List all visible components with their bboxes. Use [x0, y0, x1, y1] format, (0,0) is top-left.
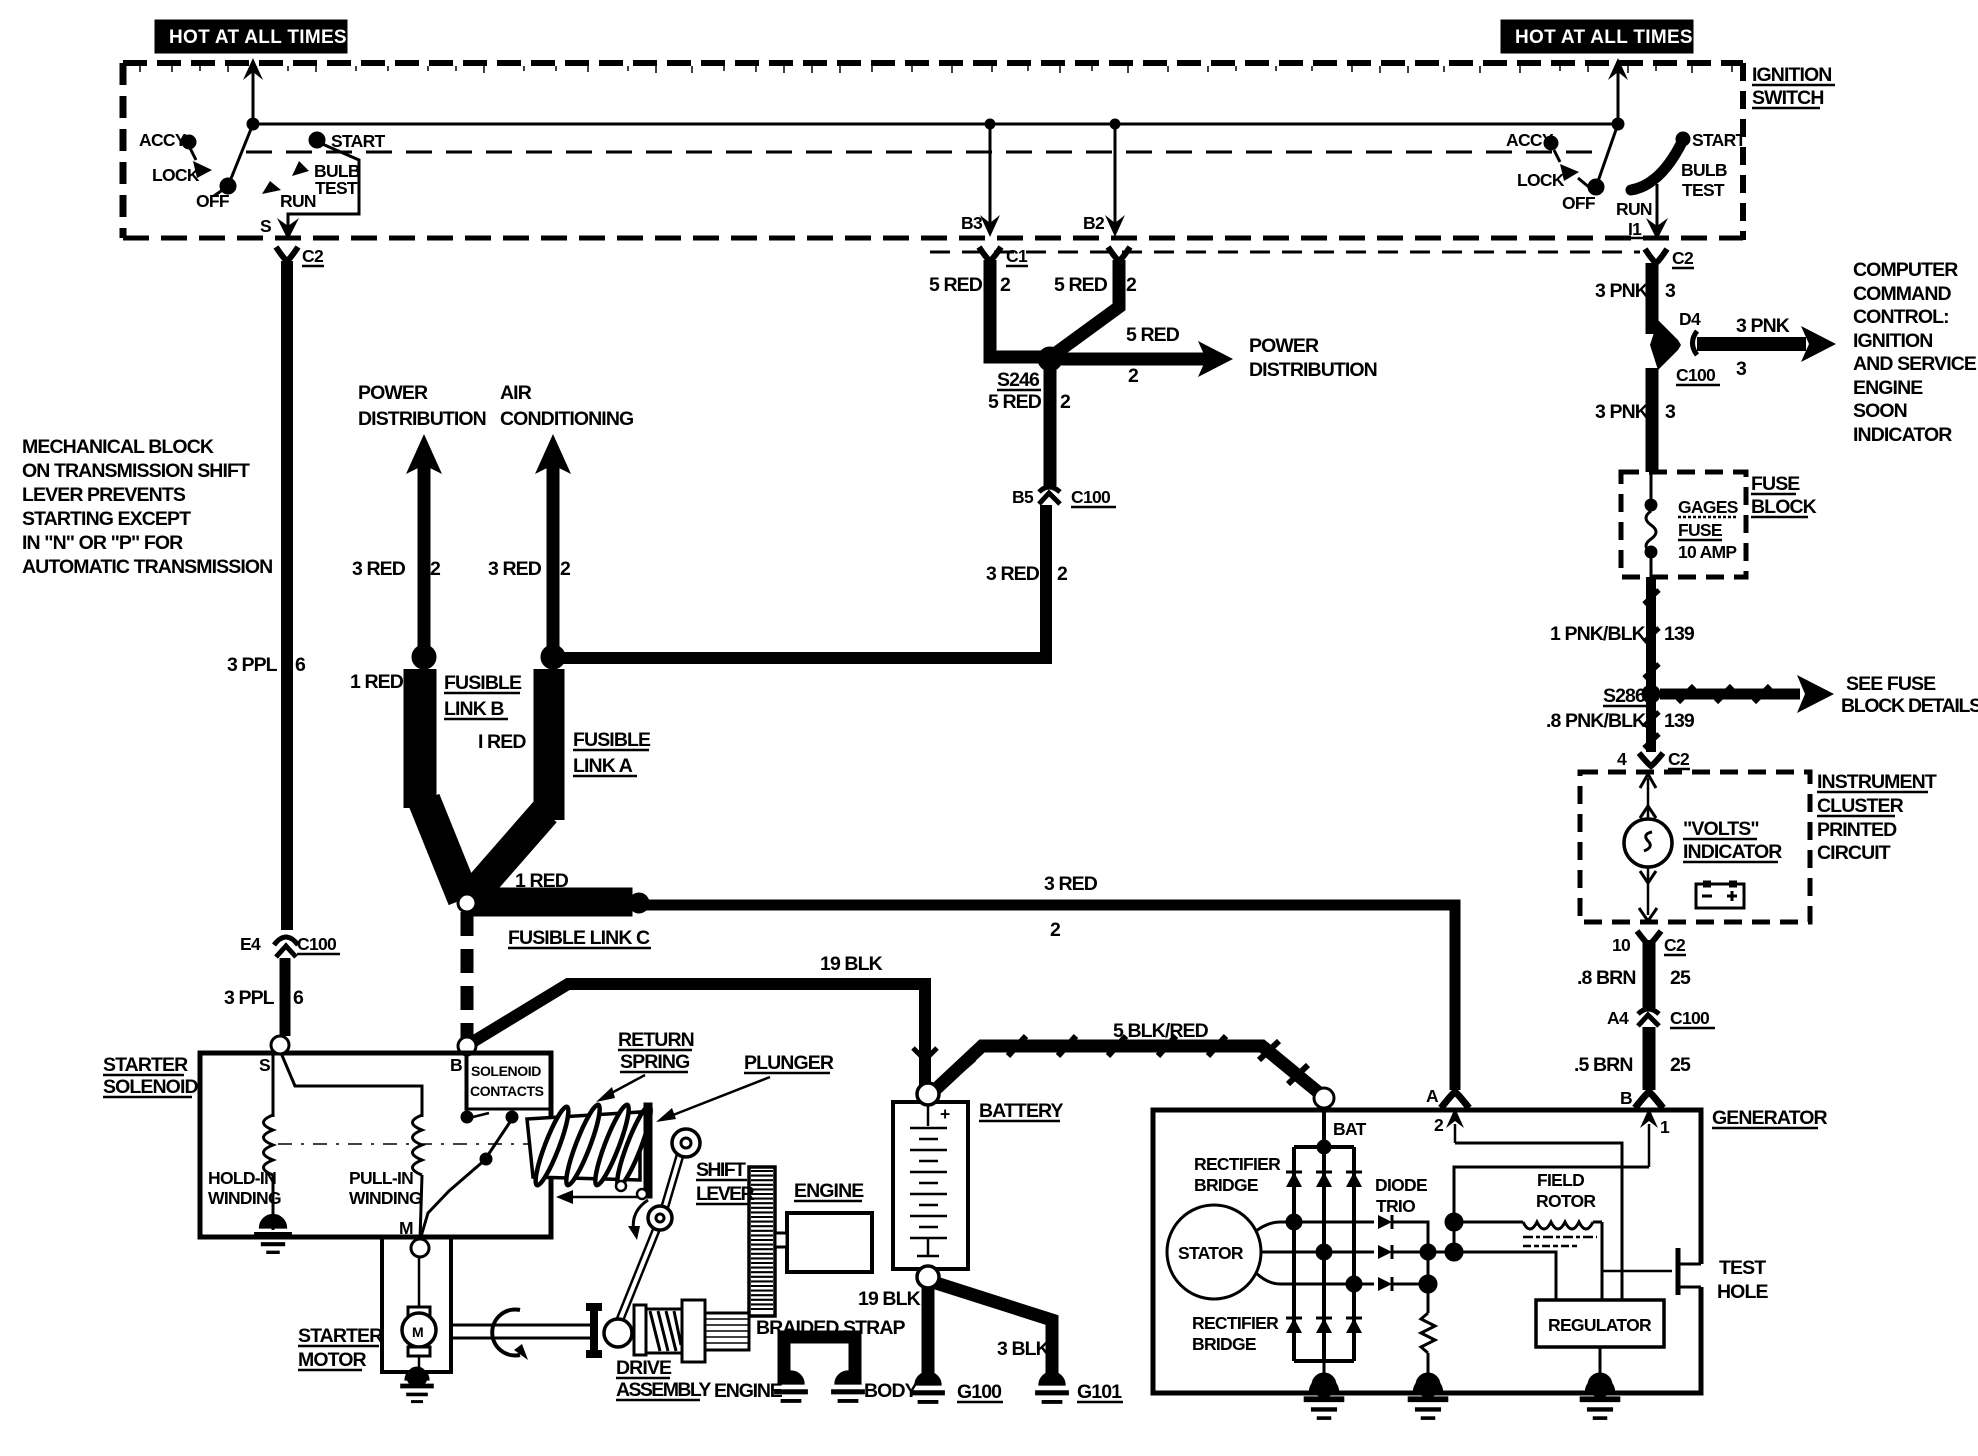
svg-text:SWITCH: SWITCH — [1752, 87, 1824, 109]
volts indicator lead in — [1640, 774, 1656, 820]
solenoid S terminal — [259, 1036, 289, 1075]
instrument cluster printed circuit dashed box — [1580, 772, 1810, 922]
label SEE FUSE BLOCK DETAILS — [1841, 673, 1978, 717]
svg-text:3 PNK: 3 PNK — [1736, 315, 1790, 337]
label PLUNGER — [744, 1052, 834, 1074]
right ignition switch feed arrow to HOT — [1608, 58, 1628, 130]
svg-text:TEST: TEST — [315, 178, 358, 198]
svg-text:B: B — [450, 1055, 462, 1075]
svg-text:5 RED: 5 RED — [988, 391, 1042, 413]
wire: bus inside ignition switch — [253, 123, 1618, 126]
left switch contact OFF — [196, 178, 236, 211]
svg-text:FIELD: FIELD — [1537, 1170, 1584, 1190]
label ENGINE (box) — [794, 1180, 864, 1202]
label POWER DISTRIBUTION (right) — [1249, 335, 1377, 381]
svg-text:5 RED: 5 RED — [1054, 274, 1108, 296]
battery - terminal — [917, 1266, 939, 1288]
svg-text:CONDITIONING: CONDITIONING — [500, 408, 633, 430]
svg-text:FUSIBLE: FUSIBLE — [573, 729, 651, 751]
wire: 5 RED S246 down to B5 — [1044, 359, 1057, 486]
svg-text:+: + — [940, 1104, 950, 1124]
rectifier bridge top bus — [1294, 1145, 1354, 1149]
svg-text:19 BLK: 19 BLK — [820, 953, 883, 975]
svg-text:AUTOMATIC TRANSMISSION: AUTOMATIC TRANSMISSION — [22, 556, 272, 578]
svg-text:C100: C100 — [1071, 487, 1111, 507]
svg-text:DIODE: DIODE — [1375, 1175, 1427, 1195]
wire: B to fixed contact — [466, 1055, 469, 1116]
volts indicator lamp — [1624, 819, 1672, 867]
stator phase leads — [1256, 1222, 1354, 1284]
ignition switch box top edge ticks — [140, 66, 1732, 73]
svg-text:M: M — [399, 1218, 413, 1238]
svg-text:G101: G101 — [1077, 1381, 1122, 1403]
svg-text:STARTER: STARTER — [298, 1325, 383, 1347]
wire: 5 RED from B2 connector to S246 — [1056, 260, 1119, 353]
connector C2 (right, below ignition switch) — [1645, 248, 1694, 268]
ground (rectifier bridge) — [1304, 1373, 1345, 1418]
rectifier bridge bottom bus — [1294, 1359, 1354, 1363]
splice S286 — [1603, 685, 1660, 707]
wire: 3 PPL (E4 to solenoid S) — [280, 958, 291, 1036]
generator BAT terminal — [1314, 1088, 1367, 1154]
svg-text:HOT AT ALL TIMES: HOT AT ALL TIMES — [1515, 27, 1693, 48]
svg-text:IN "N" OR "P" FOR: IN "N" OR "P" FOR — [22, 532, 183, 554]
label RECTIFIER BRIDGE (bottom) — [1192, 1313, 1279, 1354]
ground (regulator) — [1580, 1373, 1621, 1418]
wire: .5 BRN A4 to generator B — [1643, 1027, 1656, 1090]
shift lever rotation arrow — [633, 1200, 648, 1232]
ground G100 — [911, 1372, 1003, 1403]
ignition switch box (dashed) — [123, 63, 1743, 252]
svg-text:BATTERY: BATTERY — [979, 1100, 1064, 1122]
wire: 5 BLK/RED battery to generator BAT (hatched) — [936, 1036, 1318, 1092]
svg-text:DRIVE: DRIVE — [616, 1357, 672, 1379]
connector A4 C100 — [1607, 1008, 1715, 1028]
drive assembly splined shaft — [705, 1313, 749, 1350]
svg-text:.8 PNK/BLK: .8 PNK/BLK — [1546, 710, 1646, 732]
svg-text:DISTRIBUTION: DISTRIBUTION — [358, 408, 486, 430]
svg-text:1 PNK/BLK: 1 PNK/BLK — [1550, 623, 1646, 645]
wire: 3 PPL left column (C2 to E4) — [281, 261, 293, 930]
svg-text:AIR: AIR — [500, 382, 532, 404]
left switch contact BULB TEST — [292, 161, 360, 198]
connector at generator B — [1620, 1088, 1663, 1108]
left switch contact LOCK — [152, 161, 212, 185]
svg-text:AND SERVICE: AND SERVICE — [1853, 353, 1977, 375]
svg-text:C2: C2 — [1664, 935, 1686, 955]
svg-text:6: 6 — [293, 987, 304, 1009]
starter motor armature — [402, 1257, 436, 1374]
wire: B3 drop inside switch box — [961, 119, 1000, 237]
left switch wiper OFF->bus — [228, 124, 253, 186]
pull-in winding coil — [413, 1115, 423, 1175]
junction dot after link C — [629, 893, 649, 913]
label 3 PNK 3 (lower) — [1595, 401, 1676, 423]
braided strap — [784, 1337, 855, 1381]
engine block box — [787, 1213, 872, 1272]
svg-text:LEVER PREVENTS: LEVER PREVENTS — [22, 484, 186, 506]
svg-text:HOT AT ALL TIMES: HOT AT ALL TIMES — [169, 27, 347, 48]
svg-text:LINK B: LINK B — [444, 698, 504, 720]
svg-text:BLOCK DETAILS: BLOCK DETAILS — [1841, 695, 1978, 717]
svg-text:CIRCUIT: CIRCUIT — [1817, 842, 1891, 864]
svg-text:GENERATOR: GENERATOR — [1712, 1107, 1828, 1129]
svg-text:C100: C100 — [1676, 365, 1716, 385]
connector 10 C2 (cluster out) — [1612, 931, 1686, 955]
svg-text:3 PPL: 3 PPL — [227, 654, 278, 676]
svg-text:SOON: SOON — [1853, 400, 1907, 422]
phase junction dots on bridge — [1286, 1214, 1362, 1292]
shift lever rotation arrowhead — [628, 1226, 640, 1240]
svg-text:STATOR: STATOR — [1178, 1243, 1244, 1263]
right switch wiper OFF->bus — [1596, 124, 1618, 187]
svg-text:MECHANICAL BLOCK: MECHANICAL BLOCK — [22, 436, 214, 458]
svg-text:WINDING: WINDING — [349, 1188, 422, 1208]
wire: phase sense to regulator — [1454, 1252, 1556, 1300]
wire: RUN to I1 terminal — [1656, 184, 1659, 228]
rectifier bridge bottom diodes — [1286, 1318, 1362, 1333]
label GAGES FUSE 10 AMP — [1678, 497, 1738, 562]
svg-text:LINK A: LINK A — [573, 755, 633, 777]
ground (resistor) — [1408, 1373, 1449, 1418]
svg-text:3 PNK: 3 PNK — [1595, 280, 1649, 302]
diode trio — [1378, 1215, 1392, 1291]
shift lever pivots — [648, 1129, 700, 1230]
svg-text:3 PNK: 3 PNK — [1595, 401, 1649, 423]
label POWER DISTRIBUTION (arrow, left) — [358, 382, 486, 430]
svg-text:POWER: POWER — [358, 382, 428, 404]
svg-text:HOLD-IN: HOLD-IN — [208, 1168, 276, 1188]
field rotor core dashes — [1523, 1237, 1597, 1246]
svg-text:2: 2 — [1057, 563, 1068, 585]
label RETURN SPRING — [618, 1029, 694, 1073]
svg-text:C2: C2 — [1668, 749, 1690, 769]
ground (hold-in winding) — [254, 1215, 292, 1253]
svg-text:SHIFT: SHIFT — [696, 1159, 746, 1181]
wire: 1 PNK/BLK fuse block to S286 (hatched) — [1644, 577, 1659, 688]
svg-text:10: 10 — [1612, 935, 1631, 955]
starter motor shaft — [451, 1325, 594, 1338]
label 5 RED 2 (right) — [1054, 274, 1137, 296]
junction dot above fusible link B — [412, 645, 436, 669]
svg-text:S286: S286 — [1603, 685, 1646, 707]
svg-text:RUN: RUN — [1616, 199, 1652, 219]
wire: 3 PNK D4 to fuse block — [1646, 368, 1659, 472]
svg-text:3 RED: 3 RED — [488, 558, 542, 580]
right switch contact OFF — [1562, 179, 1604, 213]
label DRIVE ASSEMBLY — [616, 1357, 711, 1401]
svg-text:FUSIBLE: FUSIBLE — [444, 672, 522, 694]
left switch contact RUN — [262, 181, 316, 211]
svg-text:IGNITION: IGNITION — [1752, 64, 1831, 86]
label 3 RED 2 (to generator) — [1044, 873, 1098, 941]
label SHIFT LEVER — [696, 1159, 755, 1205]
left ignition switch feed arrow to HOT — [243, 58, 263, 130]
svg-text:G100: G100 — [957, 1381, 1002, 1403]
connector D4 C100 with arrow to computer command control — [1650, 309, 1836, 385]
wire: 3 RED B5 down and left to fusible link A junction — [553, 505, 1046, 658]
svg-text:E4: E4 — [240, 934, 261, 954]
wire: .8 PNK/BLK S286 to C2 (hatched) — [1644, 700, 1659, 752]
solenoid contacts box — [466, 1053, 551, 1109]
shift lever ball end — [604, 1319, 632, 1347]
rectifier bridge right column — [1352, 1147, 1356, 1361]
svg-text:1 RED: 1 RED — [350, 671, 404, 693]
wire arrow: AIR CONDITIONING up — [535, 434, 571, 655]
svg-text:6: 6 — [295, 654, 306, 676]
svg-text:2: 2 — [1050, 919, 1061, 941]
svg-text:COMPUTER: COMPUTER — [1853, 259, 1958, 281]
label 3 RED 2 (PD arrow) — [352, 558, 441, 580]
wire: S to pull-in winding — [281, 1053, 422, 1117]
svg-text:FUSE: FUSE — [1678, 520, 1722, 540]
svg-text:C2: C2 — [1672, 248, 1694, 268]
label PULL-IN WINDING — [349, 1168, 422, 1208]
drive assembly flange — [586, 1307, 602, 1354]
plunger body — [527, 1112, 640, 1180]
wire: field rotor to regulator — [1601, 1222, 1604, 1300]
svg-text:ENGINE: ENGINE — [714, 1380, 783, 1402]
label 5 RED 2 (left) — [929, 274, 1011, 296]
svg-text:5 RED: 5 RED — [929, 274, 983, 296]
svg-text:A: A — [1426, 1086, 1439, 1106]
right switch contact START — [1676, 130, 1747, 150]
svg-text:ACCY: ACCY — [139, 130, 187, 150]
gages fuse element — [1645, 472, 1657, 577]
solenoid moving contact arm — [420, 1119, 512, 1240]
svg-text:I1: I1 — [1628, 219, 1642, 239]
svg-text:C1: C1 — [1006, 246, 1028, 266]
label 3 RED 2 (AC arrow) — [488, 558, 571, 580]
svg-text:RECTIFIER: RECTIFIER — [1194, 1154, 1281, 1174]
svg-text:SEE FUSE: SEE FUSE — [1846, 673, 1936, 695]
label 3 PNK 3 (upper) — [1595, 280, 1676, 302]
svg-text:1: 1 — [1660, 1117, 1670, 1137]
ground BODY (strap) — [831, 1371, 918, 1402]
svg-text:SOLENOID: SOLENOID — [103, 1076, 198, 1098]
svg-text:LEVER: LEVER — [696, 1183, 755, 1205]
rectifier bridge left column — [1292, 1147, 1296, 1361]
svg-text:BRIDGE: BRIDGE — [1192, 1334, 1256, 1354]
svg-text:RECTIFIER: RECTIFIER — [1192, 1313, 1279, 1333]
label HOT AT ALL TIMES (left) — [155, 20, 347, 53]
svg-text:IGNITION: IGNITION — [1853, 330, 1932, 352]
starter solenoid box — [200, 1053, 551, 1237]
svg-text:S: S — [259, 1055, 270, 1075]
svg-text:3 RED: 3 RED — [1044, 873, 1098, 895]
svg-text:.8 BRN: .8 BRN — [1577, 967, 1636, 989]
right switch contact BULB TEST — [1681, 160, 1727, 200]
label FUSIBLE LINK C — [508, 927, 651, 949]
svg-text:GAGES: GAGES — [1678, 497, 1738, 517]
svg-text:5 RED: 5 RED — [1126, 324, 1180, 346]
svg-text:BULB: BULB — [1681, 160, 1727, 180]
left switch contact ACCY — [139, 130, 196, 160]
right switch contact RUN — [1616, 199, 1652, 219]
wire: 3 BLK battery - to G101 — [936, 1283, 1052, 1385]
label 3 PPL 6 (lower) — [224, 987, 304, 1009]
svg-text:139: 139 — [1664, 710, 1695, 732]
S terminal arrow at box edge — [260, 216, 299, 240]
svg-text:3 PPL: 3 PPL — [224, 987, 275, 1009]
fusible link C bar — [466, 888, 632, 916]
svg-text:FUSIBLE LINK C: FUSIBLE LINK C — [508, 927, 650, 949]
svg-text:2: 2 — [1128, 365, 1139, 387]
ground G101 — [1035, 1372, 1123, 1403]
label 3 PPL 6 (upper) — [227, 654, 306, 676]
svg-text:LOCK: LOCK — [1517, 170, 1565, 190]
svg-text:PULL-IN: PULL-IN — [349, 1168, 413, 1188]
svg-text:CONTROL:: CONTROL: — [1853, 306, 1949, 328]
svg-text:3: 3 — [1665, 280, 1676, 302]
regulator box — [1536, 1300, 1664, 1347]
svg-text:B3: B3 — [961, 213, 983, 233]
battery — [893, 1102, 968, 1269]
drive assembly collar — [634, 1305, 646, 1355]
svg-text:139: 139 — [1664, 623, 1695, 645]
solenoid B terminal (open circle) — [458, 1037, 476, 1055]
label .8 BRN 25 — [1577, 967, 1691, 989]
connector below B2 — [1108, 247, 1130, 261]
svg-text:HOLE: HOLE — [1717, 1281, 1768, 1303]
generator box — [1153, 1110, 1701, 1393]
battery cell plates — [910, 1128, 947, 1256]
spring feet — [616, 1181, 647, 1199]
label FUSIBLE LINK B — [444, 672, 522, 720]
label TEST HOLE — [1717, 1257, 1768, 1303]
fuse block dashed box — [1621, 472, 1746, 577]
test hole tap — [1602, 1248, 1701, 1295]
svg-text:SPRING: SPRING — [620, 1051, 689, 1073]
wire arrow: 5 RED to POWER DISTRIBUTION — [1038, 324, 1233, 387]
drive assembly clutch (hatched) — [646, 1309, 682, 1353]
svg-text:ROTOR: ROTOR — [1536, 1191, 1596, 1211]
wire: 19 BLK battery - to G100 — [922, 1288, 935, 1385]
svg-text:LOCK: LOCK — [152, 165, 200, 185]
ground ENGINE (strap) — [714, 1371, 808, 1402]
junction dot above fusible link A — [541, 645, 565, 669]
label AIR CONDITIONING — [500, 382, 633, 430]
svg-text:I RED: I RED — [478, 731, 526, 753]
rectifier bridge top diodes — [1286, 1172, 1362, 1187]
svg-text:B5: B5 — [1012, 487, 1034, 507]
svg-text:B: B — [1620, 1088, 1632, 1108]
svg-text:TRIO: TRIO — [1376, 1196, 1415, 1216]
wire: B(1) to field junction — [1454, 1167, 1649, 1222]
svg-text:C2: C2 — [302, 246, 324, 266]
engine flywheel ring gear — [749, 1167, 787, 1316]
label 5 RED 2 (below S246) — [988, 391, 1071, 413]
connector 4 C2 (instrument cluster in) — [1617, 749, 1690, 769]
hold-in winding coil — [264, 1115, 274, 1175]
svg-text:CLUSTER: CLUSTER — [1817, 795, 1904, 817]
svg-text:3 RED: 3 RED — [986, 563, 1040, 585]
wire: B2 drop inside switch box — [1083, 119, 1125, 237]
svg-text:TEST: TEST — [1682, 180, 1725, 200]
svg-text:ENGINE: ENGINE — [794, 1180, 864, 1202]
rectifier bridge mid column — [1322, 1147, 1326, 1361]
svg-text:2: 2 — [1434, 1115, 1444, 1135]
svg-text:25: 25 — [1670, 1054, 1691, 1076]
svg-text:2: 2 — [1000, 274, 1011, 296]
label 1 PNK/BLK 139 (upper) — [1550, 623, 1695, 645]
generator terminal 2 arrow (A) — [1434, 1108, 1464, 1143]
svg-text:SOLENOID: SOLENOID — [471, 1063, 541, 1079]
resistor in generator — [1421, 1284, 1435, 1385]
label GENERATOR — [1712, 1107, 1828, 1129]
wire: 19 BLK solenoid B to battery + — [471, 984, 925, 1086]
note text mechanical block — [22, 436, 272, 578]
solenoid M terminal — [399, 1218, 429, 1257]
svg-text:ASSEMBLY: ASSEMBLY — [616, 1379, 711, 1401]
starter motor box — [382, 1237, 451, 1372]
svg-text:2: 2 — [560, 558, 571, 580]
svg-text:STARTER: STARTER — [103, 1054, 188, 1076]
svg-text:FUSE: FUSE — [1751, 473, 1800, 495]
battery icon in cluster — [1696, 884, 1744, 908]
svg-text:ENGINE: ENGINE — [1853, 377, 1923, 399]
generator terminal 1 arrow (B) — [1640, 1108, 1670, 1167]
svg-text:M: M — [412, 1324, 424, 1340]
fusible link B bar — [420, 669, 464, 899]
label "VOLTS" INDICATOR — [1683, 818, 1782, 863]
wire: S to hold-in winding — [272, 1053, 275, 1117]
svg-text:PRINTED: PRINTED — [1817, 819, 1897, 841]
wire: pull-in winding to M — [420, 1175, 422, 1240]
svg-text:D4: D4 — [1679, 309, 1701, 329]
shaft rotation arrow — [492, 1309, 520, 1355]
svg-text:STARTING EXCEPT: STARTING EXCEPT — [22, 508, 191, 530]
diode trio collector rail — [1392, 1222, 1454, 1293]
label FUSIBLE LINK A — [573, 729, 651, 777]
label FIELD ROTOR — [1536, 1170, 1596, 1211]
svg-text:RETURN: RETURN — [618, 1029, 694, 1051]
plunger travel arrow — [556, 1190, 646, 1204]
wire: dashed bus inside ignition switch — [246, 151, 1605, 154]
battery + terminal — [917, 1083, 939, 1105]
svg-text:COMMAND: COMMAND — [1853, 283, 1952, 305]
field rotor winding — [1454, 1222, 1602, 1229]
svg-text:BRIDGE: BRIDGE — [1194, 1175, 1258, 1195]
label COMPUTER COMMAND CONTROL: IGNITION AND SERVICE ENGINE SOON INDICATOR — [1853, 259, 1977, 446]
drive assembly pinion collar — [682, 1300, 705, 1362]
svg-text:3 BLK: 3 BLK — [997, 1338, 1050, 1360]
svg-text:2: 2 — [1126, 274, 1137, 296]
svg-text:BLOCK: BLOCK — [1751, 496, 1817, 518]
svg-text:BODY: BODY — [864, 1380, 918, 1402]
plunger end plate — [644, 1103, 652, 1198]
svg-text:BAT: BAT — [1333, 1119, 1367, 1139]
wire: START to S terminal — [288, 143, 359, 228]
connector chevron on 19 BLK at battery — [913, 1048, 937, 1060]
svg-text:C100: C100 — [1670, 1008, 1710, 1028]
svg-text:3: 3 — [1736, 358, 1747, 380]
svg-text:19 BLK: 19 BLK — [858, 1288, 921, 1310]
svg-text:B2: B2 — [1083, 213, 1105, 233]
wire: dashed link junction down to solenoid B — [461, 912, 474, 1038]
svg-text:INDICATOR: INDICATOR — [1683, 841, 1782, 863]
plunger pointer arrow — [656, 1077, 770, 1122]
svg-text:TEST: TEST — [1719, 1257, 1766, 1279]
right switch travel arc RUN->START — [1631, 140, 1683, 190]
svg-text:4: 4 — [1617, 749, 1627, 769]
label RECTIFIER BRIDGE (top) — [1194, 1154, 1281, 1195]
wire: 3 PNK C2 to D4 — [1646, 263, 1659, 334]
connector at generator A — [1426, 1086, 1469, 1108]
label FUSE BLOCK — [1751, 473, 1817, 518]
right switch contact LOCK — [1517, 164, 1590, 190]
label .5 BRN 25 — [1574, 1054, 1691, 1076]
